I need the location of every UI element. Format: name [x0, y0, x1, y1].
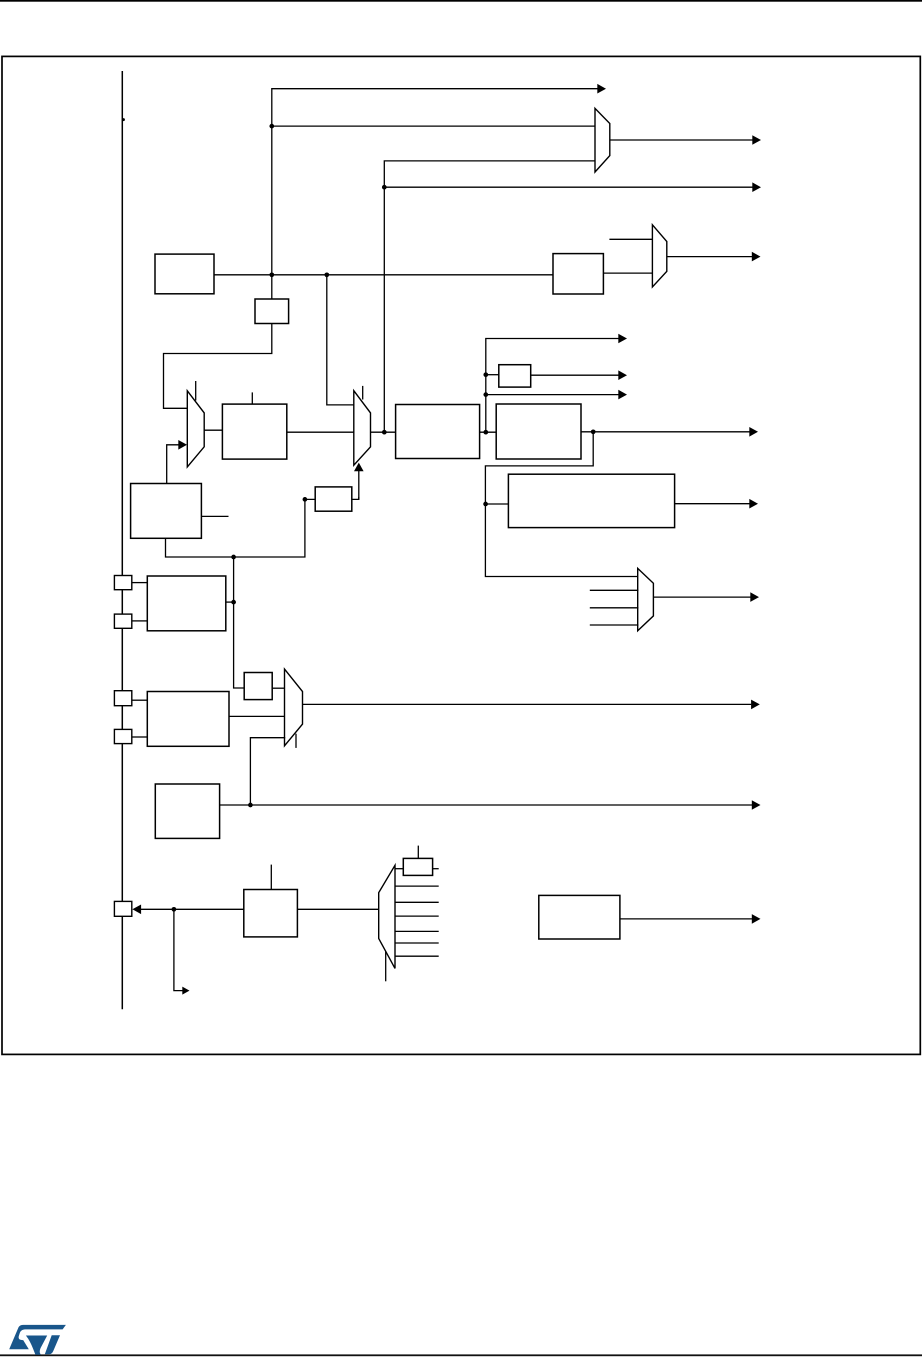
box flash clock: [539, 895, 620, 939]
wire SYSCLK out arrow: [384, 186, 752, 188]
wire LSI to mux4: [229, 715, 285, 717]
node HCLK tap: [483, 430, 488, 435]
wire stub mux7 input 2: [395, 885, 439, 887]
arrow FLITFCLK: [597, 84, 606, 94]
wire HSI/2 to PLL source mux: [164, 324, 272, 409]
box HSI RC oscillator: [155, 254, 214, 294]
node MCO branch: [172, 907, 177, 912]
pin square MCO: [114, 901, 131, 916]
wire PLLCLK to system mux: [287, 431, 355, 433]
wire stub mux7 input 6: [395, 942, 439, 944]
wire mux7 to MCO box: [297, 908, 378, 910]
node LSE output junction: [231, 600, 236, 605]
wire HSI to mux1 top input: [272, 125, 595, 127]
node SYSCLK branch: [382, 185, 387, 190]
node PCLK1 tap: [591, 429, 596, 434]
wire tap into peripheral clock box: [485, 503, 508, 505]
wire divider to mux4: [272, 687, 285, 689]
wire stub HSE right: [201, 515, 228, 517]
pin OSC32_OUT stub: [132, 620, 148, 622]
wire PLL/2 right stub: [433, 868, 439, 870]
box HSE oscillator: [131, 484, 202, 539]
box PLL: [222, 404, 286, 459]
select tick mux3: [195, 381, 197, 401]
wire RTC output arrow: [220, 804, 752, 806]
wire MCO branch down arrow: [174, 909, 183, 990]
box APB1 prescaler: [496, 404, 581, 459]
node on bus: [122, 118, 125, 121]
wire SYSCLK vertical: [384, 161, 595, 432]
wire RTCCLK output arrow: [653, 596, 750, 598]
select tick mux7: [385, 952, 387, 982]
box RTC enable: [155, 784, 219, 838]
box USB prescaler: [553, 254, 603, 294]
wire stub mux7 input 4: [395, 915, 439, 917]
mux U4 watchdog clock: [285, 669, 303, 746]
node FCLK tap: [483, 392, 488, 397]
box AHB prescaler: [396, 405, 480, 459]
wire mux3 to PLL: [204, 429, 222, 431]
box LSI oscillator: [147, 692, 229, 747]
wire USBCLK output arrow: [667, 256, 752, 258]
wire MCO box to pin with arrow: [141, 908, 244, 910]
pin OSC32_IN stub: [132, 582, 148, 584]
mux U6 USB clock: [652, 225, 666, 287]
wire stub mux6 upper input: [609, 238, 653, 240]
wire bus vertical (peripheral pin bus): [121, 71, 123, 1009]
wire PCLK1 output arrow: [581, 431, 750, 433]
wire stub mux7 input 3: [395, 901, 439, 903]
wire FCLK arrow: [486, 394, 619, 396]
mux U1 clock out: [595, 108, 610, 172]
pin OSC_OUT stub: [132, 736, 148, 738]
wire vertical HSI net: [272, 89, 598, 299]
wire /8 to SysTick arrow: [531, 374, 619, 376]
top page rule: [0, 0, 922, 2]
wire HSICLK horizontal: [214, 274, 553, 276]
figure frame: [2, 56, 920, 1054]
node HSICLK junction 2: [324, 272, 329, 277]
wire HSI to system mux top input: [327, 275, 355, 405]
wire prediv to mux2 bottom: [352, 497, 359, 499]
select tick mux2: [362, 386, 364, 400]
wire SYSCLK mux2 to AHB prescaler: [371, 431, 397, 433]
wire stub mux7 input 5: [395, 930, 439, 932]
wire stub mux5 input 2: [590, 589, 639, 591]
select tick PLLMUL: [251, 392, 253, 404]
mux U3 PLL entry: [187, 391, 204, 467]
wire HSE into mux3 with arrow: [167, 445, 179, 484]
wire stub mux5 input 3: [590, 607, 639, 609]
select tick PLL/2: [417, 846, 419, 859]
wire HSE select arrow up into mux2: [358, 468, 360, 499]
node RTC line branch to mux4: [248, 803, 253, 808]
select tick mux4: [295, 734, 297, 748]
mux U5 RTC clock: [638, 568, 654, 630]
wire mux1 output arrow: [610, 139, 753, 141]
box PLL/2 divider: [403, 858, 432, 875]
wire PCLK1 jog down to timer mux: [485, 432, 637, 577]
wire stub mux7 input 7: [395, 955, 439, 957]
pin square OSC_OUT: [114, 729, 131, 743]
wire LSE out stub: [226, 601, 234, 603]
box MCO output control: [244, 890, 298, 937]
box divider to IWDG: [244, 673, 272, 700]
mux U7 MCO select: [379, 865, 395, 968]
pin square OSC_IN: [114, 691, 131, 706]
mux U2 system clock SW: [354, 391, 371, 466]
pin OSC_IN stub: [132, 699, 148, 701]
arrow HCLK to AHB bus: [618, 334, 627, 344]
box LSE oscillator: [147, 576, 226, 631]
wire USB presc to mux6: [603, 272, 653, 274]
wire HSE column down: [234, 557, 245, 688]
node HSI to mux1: [269, 124, 274, 129]
ST logo: [9, 1325, 66, 1355]
wire mux4 lower input branch: [250, 738, 285, 805]
wire HCLK vertical tap: [486, 339, 619, 433]
wire stub mux5 input 4: [590, 624, 639, 626]
select tick MCO box: [270, 865, 272, 890]
node HSICLK junction 1: [269, 272, 274, 277]
box PREDIV1: [315, 487, 352, 511]
wire to /8 divider: [486, 374, 499, 376]
divider /2 box on HSI-PLL path: [255, 299, 289, 324]
wire IWDGCLK output arrow: [303, 703, 752, 705]
pin square OSC32_IN: [114, 576, 131, 590]
box peripheral clock enable: [508, 474, 674, 527]
wire peripheral clock output arrow: [675, 503, 750, 505]
box divider /8: [499, 365, 531, 387]
wire HSE down to prediv net: [166, 499, 316, 557]
wire HCLK to APB1 prescaler: [480, 431, 497, 433]
bottom page rule: [0, 1354, 922, 1356]
node tap to peripheral enable box: [483, 502, 488, 507]
wire flash clock output arrow: [620, 918, 752, 920]
node HSE net to LSE column: [231, 555, 236, 560]
node to /8 divider: [483, 372, 488, 377]
wire PLL/2 left stub: [395, 868, 403, 870]
node prediv input: [303, 497, 308, 502]
pin square OSC32_OUT: [114, 614, 131, 628]
node SYSCLK at mux2 output: [382, 430, 387, 435]
